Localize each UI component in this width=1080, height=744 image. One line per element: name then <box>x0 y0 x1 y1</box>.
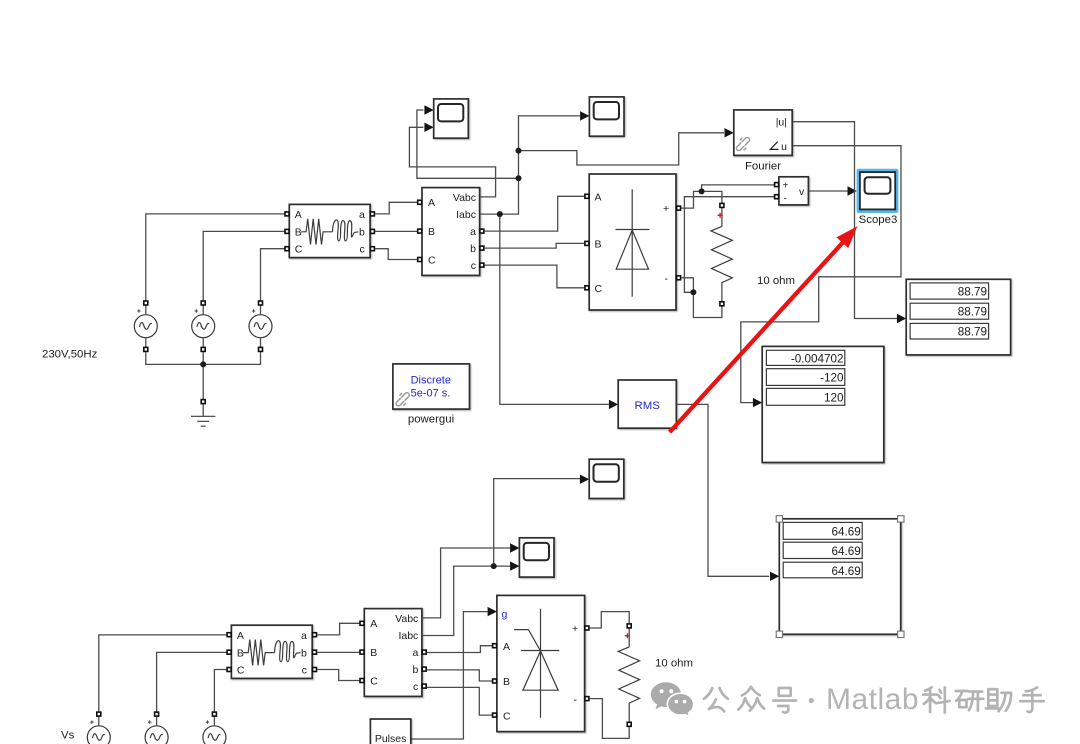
wire: Iabc2 branch to scope4 <box>494 479 581 566</box>
svg-text:u: u <box>781 141 787 153</box>
node: Iabc junction at Fourier branch <box>516 148 522 154</box>
arrow into scope2 <box>580 111 589 120</box>
scope Scope3 selected <box>857 169 899 213</box>
display D2 fourier phase <box>762 346 884 462</box>
wire: minus node to resistor R1 bottom <box>693 292 722 317</box>
svg-text:88.79: 88.79 <box>958 306 987 319</box>
wire: source3 to RLC C <box>261 249 285 305</box>
wire: Iabc2 to scope5 input2 <box>423 566 511 635</box>
svg-text:-: - <box>784 193 787 204</box>
wire: source1 to RLC A <box>146 214 285 305</box>
RMS block <box>618 380 676 428</box>
scope Scope4 <box>589 459 624 498</box>
wire: VI2 b to bridge2 B <box>427 670 495 681</box>
diode bridge B1 <box>584 174 681 310</box>
wire: Vabc2 to scope5 input1 <box>423 548 511 618</box>
arrow into bridge2 g <box>488 607 497 616</box>
AC source V4 <box>87 711 110 744</box>
watermark char ke <box>923 687 949 712</box>
wire: Fourier angle-u to display D2 <box>741 146 901 403</box>
watermark char hao <box>773 688 796 713</box>
wire: source4 to RLC2 A <box>99 635 227 714</box>
svg-text:+: + <box>572 623 578 635</box>
ground G1 <box>191 399 215 426</box>
watermark char yan <box>956 691 984 711</box>
svg-text:Discrete: Discrete <box>411 374 451 386</box>
svg-text:Vs: Vs <box>61 730 75 742</box>
resistor R2 10 ohm <box>618 623 639 727</box>
wire: Iabc branch to RMS <box>500 214 609 404</box>
wire: sources neutral bus <box>146 348 261 400</box>
svg-text:230V,50Hz: 230V,50Hz <box>42 349 98 361</box>
svg-text:-0.004702: -0.004702 <box>791 352 844 365</box>
svg-text:+: + <box>783 181 789 192</box>
svg-text:Scope3: Scope3 <box>859 214 898 226</box>
AC source V6 <box>203 711 226 744</box>
powergui block <box>393 364 470 409</box>
svg-text:Fourier: Fourier <box>745 161 781 173</box>
node: Iabc junction at scope1 branch <box>516 175 522 181</box>
svg-text:B: B <box>503 676 510 688</box>
svg-text:v: v <box>799 186 805 198</box>
wire: VI2 a to bridge2 A <box>427 646 495 653</box>
arrow into scope1 input2 <box>424 123 433 132</box>
wire: VI2 c to bridge2 C <box>427 687 495 715</box>
three-phase V-I measurement M1 <box>417 188 485 276</box>
wire: RLC2 a to VI2 A <box>317 623 362 635</box>
AC source V1 <box>134 300 157 352</box>
node: plus junction <box>699 188 705 194</box>
arrow into scope5 input1 <box>510 543 519 552</box>
resistor R1 10 ohm <box>711 203 732 307</box>
svg-text:powergui: powergui <box>408 414 454 426</box>
arrow into Fourier <box>725 128 734 137</box>
node: minus junction <box>690 289 696 295</box>
scope Scope1 <box>434 99 469 138</box>
svg-text:120: 120 <box>824 391 844 404</box>
wire: bridge2 minus to resistor R2 bottom <box>589 699 629 739</box>
node: neutral junction <box>200 361 206 367</box>
arrow into RMS <box>609 400 618 409</box>
svg-text:5e-07 s.: 5e-07 s. <box>411 387 451 399</box>
arrow into scope1 input1 <box>424 105 433 114</box>
wire: VI b to bridge B <box>484 243 586 248</box>
red annotation arrow <box>670 226 858 432</box>
wire: RLC2 b to VI2 B <box>317 651 362 653</box>
wire: V out to Scope3 <box>809 190 849 192</box>
svg-text:64.69: 64.69 <box>832 565 861 578</box>
AC source V5 <box>145 711 168 744</box>
wire: source2 to RLC B <box>203 231 284 305</box>
node: Iabc junction at RMS drop <box>497 211 503 217</box>
wire: node to resistor R1 top <box>702 191 722 203</box>
wire: bridge2 plus to resistor R2 <box>589 612 629 628</box>
arrow into display D3 <box>770 572 779 581</box>
display D3 64.69 selected <box>776 516 904 638</box>
svg-text:64.69: 64.69 <box>832 525 861 538</box>
svg-text:10 ohm: 10 ohm <box>655 658 693 670</box>
wire: RLC b to VI B <box>375 230 420 232</box>
wire: VI c to bridge C <box>484 265 586 288</box>
svg-text:Matlab: Matlab <box>826 683 919 716</box>
watermark char gong <box>704 688 728 711</box>
wire: Vabc to scope1 lower input <box>409 127 495 197</box>
AC source V2 <box>192 300 215 352</box>
wire: Iabc branch to scope1 upper input <box>417 110 519 178</box>
svg-text:C: C <box>503 710 511 722</box>
Pulses block <box>370 719 410 744</box>
watermark char zhong <box>738 687 764 711</box>
voltage measurement U1 <box>774 177 809 205</box>
wire: Fourier |u| to display D1 <box>793 122 898 319</box>
svg-text:A: A <box>595 191 602 203</box>
svg-text:88.79: 88.79 <box>958 326 987 339</box>
wire: RLC c to VI C <box>375 249 420 260</box>
wire: minus node to V- input <box>684 197 774 293</box>
svg-text:C: C <box>595 283 603 295</box>
wire: RMS to display D3 <box>677 404 770 576</box>
arrow into Scope3 <box>848 186 857 195</box>
AC source V3 <box>249 300 272 352</box>
node: Iabc2 junction <box>491 563 497 569</box>
three-phase RLC branch Z2 <box>226 625 317 678</box>
wire: source5 to RLC2 B <box>157 652 227 714</box>
wire: Iabc net <box>481 116 581 214</box>
watermark char shou <box>1020 687 1043 712</box>
svg-text:64.69: 64.69 <box>832 545 861 558</box>
watermark middle dot <box>809 698 814 703</box>
wire: bridge minus to node <box>681 278 693 290</box>
arrow into scope5 input2 <box>510 561 519 570</box>
svg-text:|u|: |u| <box>776 117 787 129</box>
arrow into display D1 <box>897 314 906 323</box>
wire: Pulses to bridge2 g <box>411 612 488 739</box>
three-phase V-I measurement M2 <box>359 609 427 697</box>
wire: VI a to bridge A <box>484 196 586 231</box>
svg-text:B: B <box>595 238 602 250</box>
svg-text:RMS: RMS <box>635 400 661 412</box>
wire: node up to V+ input <box>702 185 775 192</box>
wire: source6 to RLC2 C <box>214 670 226 715</box>
svg-text:-120: -120 <box>820 372 844 385</box>
svg-text:88.79: 88.79 <box>958 285 987 298</box>
wire: bridge plus to node <box>681 191 701 208</box>
wire: RLC2 c to VI2 C <box>317 670 362 681</box>
three-phase RLC branch Z1 <box>284 204 375 257</box>
arrow into display D2 <box>753 398 762 407</box>
scope Scope2 <box>589 97 624 136</box>
Fourier block F1 <box>734 110 793 155</box>
svg-text:+: + <box>663 203 669 215</box>
thyristor bridge B2 <box>492 595 590 731</box>
watermark wechat icon <box>651 682 694 717</box>
arrow into scope4 <box>580 475 589 484</box>
svg-text:Pulses: Pulses <box>375 733 407 744</box>
svg-text:-: - <box>665 273 669 285</box>
svg-text:g: g <box>502 608 508 620</box>
watermark char zhu <box>986 689 1011 711</box>
svg-text:-: - <box>574 694 578 706</box>
svg-text:10 ohm: 10 ohm <box>757 275 795 287</box>
svg-text:A: A <box>503 641 510 653</box>
wire: Iabc branch to Fourier <box>519 133 725 165</box>
display D1 88.79 <box>906 279 1010 355</box>
wire: RLC a to VI A <box>375 202 420 214</box>
scope Scope5 <box>519 538 554 577</box>
